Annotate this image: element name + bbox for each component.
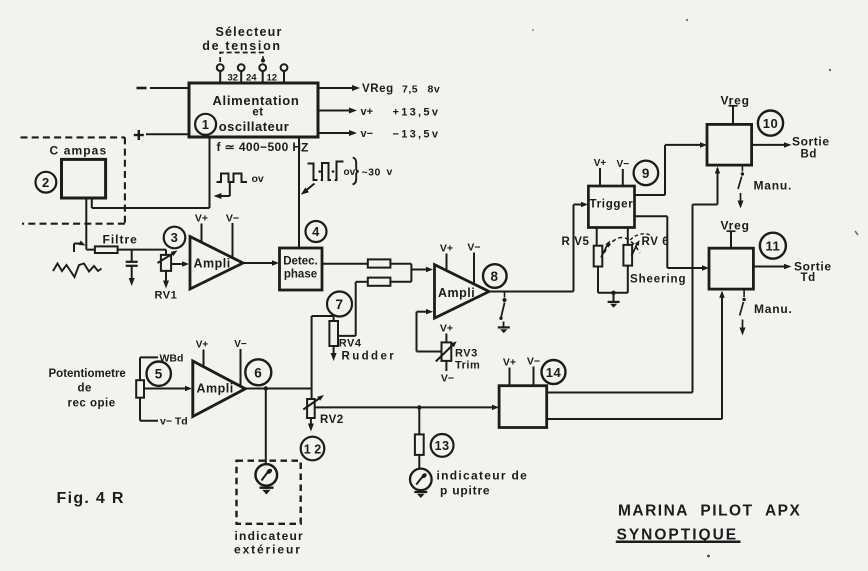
svg-text:1: 1 bbox=[202, 117, 210, 132]
svg-text:rec opie: rec opie bbox=[68, 398, 116, 410]
svg-text:indicateur: indicateur bbox=[235, 529, 304, 543]
svg-text:RV2: RV2 bbox=[320, 414, 344, 426]
svg-text:V+: V+ bbox=[594, 158, 607, 169]
svg-text:V−: V− bbox=[234, 339, 247, 350]
svg-text:R V5: R V5 bbox=[562, 236, 590, 248]
svg-text:Rudder: Rudder bbox=[342, 351, 397, 363]
svg-text:Ampli: Ampli bbox=[197, 382, 234, 396]
svg-text:4: 4 bbox=[312, 224, 320, 239]
svg-text:14: 14 bbox=[546, 365, 562, 380]
svg-text:C ampas: C ampas bbox=[50, 144, 108, 158]
svg-text:v: v bbox=[387, 166, 393, 178]
svg-text:Potentiometre: Potentiometre bbox=[49, 368, 126, 380]
svg-text:MARINA PILOT APX: MARINA PILOT APX bbox=[618, 503, 801, 520]
svg-text:11: 11 bbox=[766, 239, 781, 254]
svg-text:Sélecteur: Sélecteur bbox=[215, 25, 282, 39]
svg-text:Trim: Trim bbox=[455, 360, 480, 372]
svg-text:7,5: 7,5 bbox=[402, 84, 418, 96]
svg-text:8v: 8v bbox=[428, 84, 441, 96]
svg-text:Manu.: Manu. bbox=[754, 302, 793, 316]
svg-text:10: 10 bbox=[763, 116, 778, 131]
svg-text:Filtre: Filtre bbox=[103, 233, 138, 247]
svg-text:V+: V+ bbox=[440, 323, 453, 335]
svg-text:p upitre: p upitre bbox=[440, 484, 490, 498]
svg-text:v−: v− bbox=[361, 128, 374, 140]
svg-text:de: de bbox=[78, 383, 92, 395]
svg-text:~30: ~30 bbox=[362, 167, 381, 179]
svg-text:V+: V+ bbox=[503, 357, 516, 369]
svg-text:2: 2 bbox=[42, 175, 50, 190]
svg-text:extérieur: extérieur bbox=[234, 543, 302, 557]
svg-text:v− Td: v− Td bbox=[160, 416, 188, 428]
svg-text:9: 9 bbox=[642, 166, 650, 181]
svg-text:RV3: RV3 bbox=[455, 348, 478, 360]
svg-text:phase: phase bbox=[284, 269, 317, 281]
svg-text:V−: V− bbox=[467, 242, 480, 254]
svg-text:Sheering: Sheering bbox=[630, 274, 686, 286]
svg-text:8: 8 bbox=[490, 269, 498, 284]
svg-text:+13,5v: +13,5v bbox=[393, 107, 441, 119]
svg-text:de tension: de tension bbox=[202, 39, 282, 53]
svg-text:RV 6: RV 6 bbox=[642, 236, 670, 248]
svg-text:V−: V− bbox=[226, 213, 239, 225]
svg-text:VReg: VReg bbox=[362, 83, 394, 95]
svg-text:v+: v+ bbox=[361, 106, 374, 118]
svg-text:−13,5v: −13,5v bbox=[393, 129, 441, 141]
svg-text:Bd: Bd bbox=[801, 149, 818, 161]
svg-text:Td: Td bbox=[801, 272, 816, 284]
svg-text:V+: V+ bbox=[195, 213, 208, 225]
svg-text:Fig. 4 R: Fig. 4 R bbox=[57, 490, 125, 507]
svg-text:indicateur de: indicateur de bbox=[437, 469, 529, 483]
svg-text:6: 6 bbox=[254, 365, 262, 380]
svg-text:RV4: RV4 bbox=[339, 338, 362, 350]
svg-text:RV1: RV1 bbox=[155, 290, 178, 302]
svg-text:Manu.: Manu. bbox=[754, 179, 793, 193]
svg-text:ov: ov bbox=[252, 173, 264, 185]
svg-text:Ampli: Ampli bbox=[194, 257, 231, 271]
svg-text:Ampli: Ampli bbox=[438, 286, 475, 300]
svg-text:Detec.: Detec. bbox=[283, 256, 318, 268]
svg-text:et: et bbox=[252, 107, 263, 119]
svg-text:V+: V+ bbox=[196, 340, 209, 351]
svg-text:7: 7 bbox=[335, 297, 343, 312]
svg-text:V−: V− bbox=[617, 159, 630, 170]
svg-text:5: 5 bbox=[155, 367, 163, 382]
svg-text:f ≃ 400−500 H: f ≃ 400−500 H bbox=[217, 140, 302, 154]
svg-text:Trigger: Trigger bbox=[590, 199, 634, 211]
svg-text:13: 13 bbox=[435, 439, 450, 453]
svg-text:3: 3 bbox=[171, 230, 179, 245]
svg-text:Z: Z bbox=[301, 141, 308, 155]
svg-text:Sortie: Sortie bbox=[792, 135, 830, 149]
svg-text:V−: V− bbox=[441, 373, 454, 385]
svg-text:V−: V− bbox=[527, 356, 540, 368]
svg-text:V+: V+ bbox=[440, 243, 453, 255]
svg-text:oscillateur: oscillateur bbox=[219, 119, 290, 134]
svg-text:1 2: 1 2 bbox=[304, 443, 321, 457]
svg-text:ov: ov bbox=[344, 167, 356, 178]
